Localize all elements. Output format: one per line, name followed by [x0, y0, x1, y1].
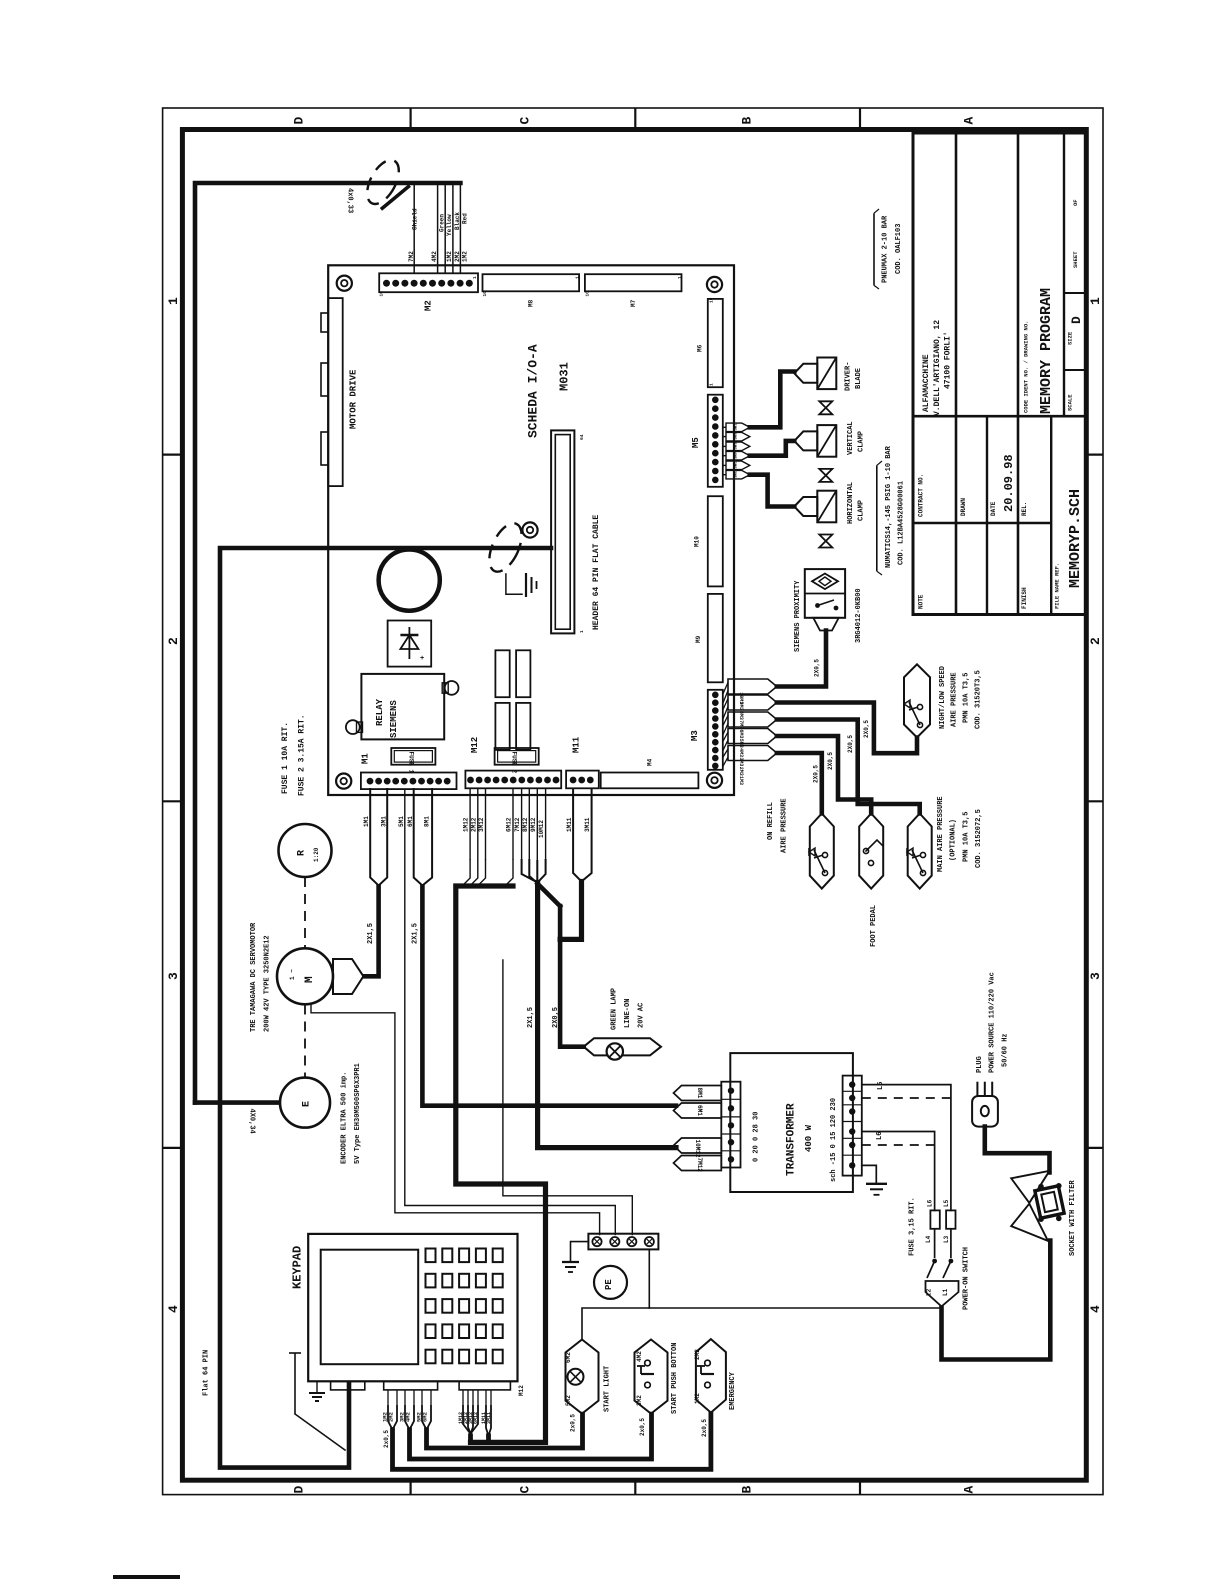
svg-text:COD. L12BA4528G00061: COD. L12BA4528G00061 [898, 481, 906, 565]
svg-text:FILE NAME REF.: FILE NAME REF. [1053, 563, 1060, 609]
svg-text:64: 64 [579, 434, 585, 440]
svg-text:M6: M6 [696, 344, 703, 352]
svg-text:SCHEDA I/O-A: SCHEDA I/O-A [526, 344, 541, 438]
svg-text:REL.: REL. [1021, 502, 1028, 516]
svg-text:3M11: 3M11 [584, 817, 591, 832]
svg-text:M4: M4 [647, 758, 654, 766]
svg-text:0 20 0 28 30: 0 20 0 28 30 [752, 1112, 760, 1162]
svg-text:M031: M031 [557, 362, 571, 391]
svg-text:200W 42V TYPE 3250N2E12: 200W 42V TYPE 3250N2E12 [264, 935, 272, 1032]
svg-text:DRAWN: DRAWN [960, 498, 967, 516]
svg-text:1M2: 1M2 [694, 1393, 701, 1404]
svg-text:PMN 10A T3,5: PMN 10A T3,5 [963, 812, 971, 862]
svg-text:5M2: 5M2 [565, 1395, 572, 1406]
svg-text:PMN 10A T3,5: PMN 10A T3,5 [963, 673, 971, 723]
svg-text:SIZE: SIZE [1067, 331, 1074, 345]
svg-text:M9: M9 [695, 635, 702, 643]
svg-text:START LIGHT: START LIGHT [604, 1366, 612, 1412]
svg-text:SHEET: SHEET [1072, 251, 1079, 268]
svg-text:6M5: 6M5 [732, 433, 736, 441]
svg-text:10: 10 [584, 291, 590, 297]
svg-text:20.09.98: 20.09.98 [1002, 454, 1016, 512]
svg-text:1: 1 [166, 297, 181, 305]
svg-text:4: 4 [1088, 1305, 1103, 1313]
svg-text:V.DELL'ARTIGIANO, 12: V.DELL'ARTIGIANO, 12 [933, 320, 942, 416]
svg-text:FUSE 3,15 RIT.: FUSE 3,15 RIT. [908, 1197, 916, 1256]
svg-text:ENCODER ELTRA 500 imp.: ENCODER ELTRA 500 imp. [341, 1072, 349, 1164]
svg-text:8M1: 8M1 [696, 1088, 703, 1099]
svg-text:M1: M1 [361, 753, 371, 764]
svg-text:C: C [518, 117, 533, 125]
svg-text:L6: L6 [876, 1132, 884, 1140]
svg-text:PNEUMAX 2-10 BAR: PNEUMAX 2-10 BAR [881, 215, 889, 283]
svg-text:L4: L4 [925, 1235, 932, 1243]
svg-text:D: D [1069, 316, 1084, 324]
svg-text:ON REFILL: ON REFILL [767, 802, 775, 840]
svg-text:C: C [518, 1486, 533, 1494]
svg-text:3RG4012-0KB00: 3RG4012-0KB00 [855, 588, 863, 643]
svg-text:2X1,5: 2X1,5 [367, 923, 375, 944]
svg-text:2M2: 2M2 [694, 1349, 701, 1360]
svg-text:3: 3 [166, 972, 181, 980]
svg-text:M12: M12 [470, 737, 480, 753]
svg-text:AIRE PRESSURE: AIRE PRESSURE [951, 672, 959, 727]
svg-text:L2: L2 [926, 1288, 933, 1296]
svg-text:10: 10 [709, 297, 715, 303]
svg-text:D: D [292, 117, 307, 125]
svg-text:10M12: 10M12 [538, 820, 545, 838]
svg-text:START PUSH BOTTON: START PUSH BOTTON [671, 1343, 679, 1414]
svg-text:7M12: 7M12 [696, 1158, 703, 1173]
svg-text:DATE: DATE [990, 501, 997, 516]
svg-text:1 ~: 1 ~ [289, 969, 296, 980]
svg-text:2X1,5: 2X1,5 [412, 923, 420, 944]
svg-text:3M12: 3M12 [478, 817, 485, 832]
svg-text:FUSE 2 3.15A RIT.: FUSE 2 3.15A RIT. [297, 714, 306, 796]
svg-text:1M2: 1M2 [461, 251, 468, 262]
svg-text:2M12: 2M12 [470, 817, 477, 832]
svg-text:3M3: 3M3 [738, 757, 744, 766]
svg-text:Shield: Shield [411, 208, 418, 230]
svg-text:RELAY: RELAY [375, 698, 385, 726]
svg-text:M8: M8 [528, 299, 535, 307]
svg-text:L5: L5 [877, 1082, 885, 1090]
svg-text:2X0,5: 2X0,5 [827, 752, 834, 770]
svg-text:5M5: 5M5 [732, 442, 736, 450]
svg-text:1: 1 [575, 276, 581, 279]
svg-text:AIRE PRESSURE: AIRE PRESSURE [781, 798, 789, 853]
svg-text:A: A [962, 1486, 977, 1494]
svg-text:EMERGENCY: EMERGENCY [729, 1371, 737, 1410]
svg-text:3: 3 [1088, 972, 1103, 980]
svg-text:COD. 31520T3,5: COD. 31520T3,5 [975, 670, 983, 729]
svg-text:1: 1 [579, 630, 585, 633]
svg-text:(OPTIONAL): (OPTIONAL) [950, 819, 958, 861]
svg-text:M12: M12 [518, 1385, 525, 1396]
svg-text:M5: M5 [691, 437, 701, 448]
svg-text:M2: M2 [424, 300, 434, 311]
svg-text:10: 10 [379, 291, 385, 297]
svg-text:L5: L5 [943, 1199, 950, 1207]
svg-text:10: 10 [482, 291, 488, 297]
svg-text:2: 2 [166, 637, 181, 645]
svg-text:E: E [302, 1101, 313, 1107]
svg-text:4M3: 4M3 [738, 748, 744, 757]
svg-text:COD. OALF103: COD. OALF103 [895, 224, 903, 274]
svg-text:GREEN LAMP: GREEN LAMP [610, 988, 618, 1030]
svg-text:MOTOR DRIVE: MOTOR DRIVE [349, 369, 359, 429]
svg-text:NOTE: NOTE [918, 594, 925, 609]
svg-text:2X0,5: 2X0,5 [552, 1007, 560, 1028]
svg-text:A: A [962, 117, 977, 125]
svg-text:MAIN AIRE PRESSURE: MAIN AIRE PRESSURE [937, 796, 945, 872]
svg-text:R: R [297, 850, 308, 856]
svg-text:Yellow: Yellow [446, 214, 453, 236]
svg-text:20V AC: 20V AC [637, 1003, 645, 1028]
svg-text:4: 4 [166, 1305, 181, 1313]
svg-text:M11: M11 [572, 736, 582, 753]
svg-text:BLADE: BLADE [855, 368, 863, 389]
svg-text:NUMATICS14,-145 PSIG 1-10 BAR: NUMATICS14,-145 PSIG 1-10 BAR [885, 445, 893, 568]
svg-text:2X1,5: 2X1,5 [527, 1007, 535, 1028]
svg-text:1: 1 [709, 383, 715, 386]
svg-text:HEADER 64 PIN FLAT CABLE: HEADER 64 PIN FLAT CABLE [592, 515, 601, 630]
svg-text:400 W: 400 W [804, 1124, 814, 1152]
svg-text:5M1: 5M1 [398, 816, 405, 827]
svg-text:MEMORYP.SCH: MEMORYP.SCH [1067, 489, 1084, 588]
svg-text:TRANSFORMER: TRANSFORMER [786, 1103, 798, 1176]
svg-text:DRIVER-: DRIVER- [845, 362, 853, 391]
svg-text:FOOT PEDAL: FOOT PEDAL [870, 905, 878, 947]
svg-text:1: 1 [677, 276, 683, 279]
svg-text:8M1: 8M1 [424, 816, 431, 827]
svg-text:Green: Green [438, 214, 445, 232]
svg-text:HORIZONTAL: HORIZONTAL [847, 482, 855, 524]
svg-text:Flat 64 PIN: Flat 64 PIN [202, 1350, 210, 1396]
svg-text:POWER SOURCE 110/220 Vac: POWER SOURCE 110/220 Vac [988, 972, 996, 1073]
svg-text:4M2: 4M2 [636, 1351, 643, 1362]
svg-text:6M3: 6M3 [738, 730, 744, 739]
svg-text:Black: Black [454, 212, 461, 230]
svg-text:2x0,5: 2x0,5 [570, 1414, 577, 1432]
svg-text:7M5: 7M5 [732, 423, 736, 431]
svg-text:2x0,5: 2x0,5 [701, 1419, 708, 1437]
svg-text:2X0,5: 2X0,5 [863, 720, 870, 738]
svg-text:SOCKET WITH FILTER: SOCKET WITH FILTER [1069, 1180, 1077, 1256]
svg-text:VERTICAL: VERTICAL [847, 421, 855, 455]
svg-text:6M2: 6M2 [565, 1352, 572, 1363]
svg-text:POWER-ON SWITCH: POWER-ON SWITCH [963, 1247, 971, 1310]
svg-text:M7: M7 [630, 299, 637, 307]
svg-text:FINISH: FINISH [1021, 587, 1028, 609]
svg-text:7M2: 7M2 [408, 251, 415, 262]
svg-text:2M3: 2M3 [738, 767, 744, 776]
svg-text:FUSE 1 10A RIT.: FUSE 1 10A RIT. [281, 722, 290, 794]
svg-text:2x0,5: 2x0,5 [383, 1430, 390, 1448]
svg-text:50/60 Hz: 50/60 Hz [1002, 1033, 1010, 1067]
svg-text:D: D [292, 1486, 307, 1494]
svg-text:1M12: 1M12 [463, 817, 470, 832]
svg-text:2: 2 [1088, 637, 1103, 645]
svg-text:1M3: 1M3 [738, 776, 744, 785]
svg-text:3M5: 3M5 [732, 461, 736, 469]
svg-text:TRE TAMAGAWA DC SERVOMOTOR: TRE TAMAGAWA DC SERVOMOTOR [250, 922, 258, 1032]
svg-text:8M12: 8M12 [522, 817, 529, 832]
svg-text:ALFAMACCHINE: ALFAMACCHINE [922, 354, 931, 412]
svg-text:L1: L1 [942, 1288, 949, 1296]
svg-text:SIEMENS: SIEMENS [389, 700, 399, 738]
svg-text:4M2: 4M2 [431, 251, 438, 262]
svg-text:2X0,5: 2X0,5 [814, 659, 821, 677]
svg-text:MEMORY PROGRAM: MEMORY PROGRAM [1038, 288, 1055, 414]
svg-text:9M12: 9M12 [530, 817, 537, 832]
svg-text:1M1: 1M1 [363, 816, 370, 827]
svg-text:KEYPAD: KEYPAD [290, 1246, 304, 1289]
svg-text:CODE IDENT NO. / DRAWING NO.: CODE IDENT NO. / DRAWING NO. [1023, 321, 1030, 413]
svg-text:CONTRACT NO.: CONTRACT NO. [918, 474, 925, 517]
svg-text:NIGHT/LOW SPEED: NIGHT/LOW SPEED [939, 666, 947, 729]
svg-text:2X0,5: 2X0,5 [847, 735, 854, 753]
svg-text:1:20: 1:20 [313, 847, 320, 862]
svg-text:1M11: 1M11 [566, 817, 573, 832]
svg-text:PE: PE [604, 1279, 614, 1290]
svg-text:COD. 3152072,5: COD. 3152072,5 [975, 809, 983, 868]
svg-text:6M12: 6M12 [506, 817, 513, 832]
svg-text:sch -15 0 15 120 230: sch -15 0 15 120 230 [830, 1098, 838, 1182]
svg-text:FUSE 1: FUSE 1 [407, 752, 414, 774]
svg-text:1M2: 1M2 [446, 251, 453, 262]
svg-text:M: M [304, 976, 316, 983]
svg-text:2M5: 2M5 [732, 471, 736, 479]
svg-text:M10: M10 [694, 536, 701, 547]
svg-text:SIEMENS PROXIMITY: SIEMENS PROXIMITY [794, 580, 802, 652]
svg-text:L3: L3 [943, 1235, 950, 1243]
svg-text:CLAMP: CLAMP [857, 431, 865, 452]
svg-text:PLUG: PLUG [976, 1056, 984, 1073]
svg-text:5V Type EH30M500SP6X3PR1: 5V Type EH30M500SP6X3PR1 [354, 1063, 362, 1164]
svg-text:LINE-ON: LINE-ON [624, 999, 632, 1028]
svg-text:FUSE 2: FUSE 2 [511, 752, 518, 774]
svg-text:SCALE: SCALE [1067, 394, 1074, 411]
svg-text:B: B [740, 117, 755, 125]
svg-text:4M5: 4M5 [732, 452, 736, 460]
svg-text:2x0,5: 2x0,5 [639, 1418, 646, 1436]
svg-text:4x0,33: 4x0,33 [346, 188, 354, 213]
svg-text:47100 FORLI': 47100 FORLI' [943, 331, 952, 389]
svg-text:7M12: 7M12 [514, 817, 521, 832]
svg-text:+: + [420, 655, 424, 663]
svg-text:1: 1 [1088, 297, 1103, 305]
svg-text:1: 1 [472, 276, 478, 279]
svg-text:Red: Red [462, 213, 469, 224]
svg-text:M3: M3 [690, 730, 700, 741]
svg-text:3M2: 3M2 [636, 1395, 643, 1406]
svg-text:B: B [740, 1486, 755, 1494]
svg-text:L6: L6 [926, 1199, 933, 1207]
svg-text:4X0,34: 4X0,34 [248, 1109, 256, 1134]
svg-text:6M1: 6M1 [696, 1105, 703, 1116]
svg-text:2M2: 2M2 [454, 251, 461, 262]
svg-text:OF: OF [1072, 199, 1079, 206]
svg-text:2X0,5: 2X0,5 [813, 765, 820, 783]
svg-text:CLAMP: CLAMP [857, 500, 865, 521]
